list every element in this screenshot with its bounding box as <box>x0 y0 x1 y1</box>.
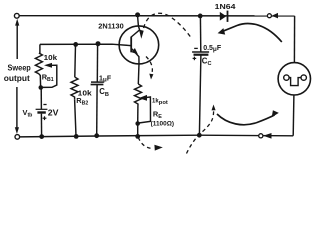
svg-text:0.5μF: 0.5μF <box>203 45 222 53</box>
svg-text:RE: RE <box>153 109 162 120</box>
headphones <box>278 63 310 95</box>
current loop arrow top <box>221 24 282 42</box>
junction node RB2 bottom <box>74 134 79 139</box>
diode 1N64 <box>220 12 227 21</box>
junction node CC bottom <box>197 133 202 138</box>
terminal top right <box>267 14 271 18</box>
dashed arrow transistor to RE <box>146 57 152 74</box>
arrowhead on bottom rail <box>263 133 271 139</box>
wire headphone bottom lead <box>292 95 295 136</box>
terminal sweep output bottom <box>15 135 20 140</box>
junction node CC top <box>198 14 203 19</box>
svg-text:Sweep: Sweep <box>8 64 31 73</box>
dashed loop arrowhead into transistor <box>139 30 144 39</box>
svg-text:2N1130: 2N1130 <box>98 21 123 30</box>
wiper arrow RB1 <box>44 63 52 68</box>
dashed arrow under rail left <box>138 137 153 148</box>
svg-text:output: output <box>4 74 30 83</box>
junction node battery bottom <box>39 134 44 139</box>
wire headphone top lead <box>293 16 295 63</box>
terminal bottom right <box>259 134 263 138</box>
wire bottom rail <box>20 135 293 137</box>
junction node RE bottom <box>135 134 140 139</box>
junction node RB2 top <box>73 42 78 47</box>
arrow to top terminal <box>16 24 18 59</box>
transistor emitter lead top <box>131 15 139 37</box>
svg-text:(1100Ω): (1100Ω) <box>151 120 174 127</box>
svg-text:1N64: 1N64 <box>215 2 237 11</box>
svg-text:CB: CB <box>99 87 109 98</box>
battery Vtb <box>36 108 48 110</box>
svg-text:1μF: 1μF <box>99 75 112 83</box>
junction node collector rail <box>135 12 140 17</box>
wire CC lead <box>199 16 201 52</box>
resistor RB2 10k <box>71 77 78 99</box>
svg-text:RB1: RB1 <box>42 73 54 84</box>
svg-text:pot: pot <box>159 100 168 106</box>
transistor Q1 2N1130 circle <box>119 26 159 64</box>
junction node RE wiper <box>135 121 140 126</box>
junction node RB1 bottom <box>39 85 44 90</box>
wire collector to rail <box>137 14 139 17</box>
capacitor CC <box>192 51 209 53</box>
wire top rail <box>20 15 295 17</box>
dashed arrow up into CC <box>187 111 214 154</box>
capacitor CB <box>91 81 103 83</box>
wiper arrow RE <box>139 95 147 101</box>
wire CB lead top <box>96 44 98 82</box>
arrowhead on top rail <box>272 13 278 19</box>
dashed feedback arc CC to transistor <box>143 13 190 36</box>
terminal sweep output top <box>14 13 19 18</box>
wire emitter column <box>137 64 140 84</box>
svg-text:CC: CC <box>202 56 212 67</box>
wire battery column <box>40 88 42 110</box>
resistor RE 1k pot <box>135 84 142 107</box>
current loop arrow bottom <box>217 114 275 125</box>
arrow to bottom terminal <box>16 87 18 128</box>
svg-text:Vtb: Vtb <box>23 108 33 119</box>
transistor collector lead bottom with arrow <box>131 48 139 63</box>
svg-text:10k: 10k <box>44 53 58 62</box>
wire RB2 lead <box>74 44 77 77</box>
svg-text:2V: 2V <box>48 109 60 118</box>
junction node CB top <box>96 41 101 46</box>
junction node CB bottom <box>94 133 99 138</box>
resistor RB1 10k potentiometer <box>39 44 41 53</box>
transistor base bar <box>130 37 132 53</box>
wire base line <box>40 44 131 45</box>
